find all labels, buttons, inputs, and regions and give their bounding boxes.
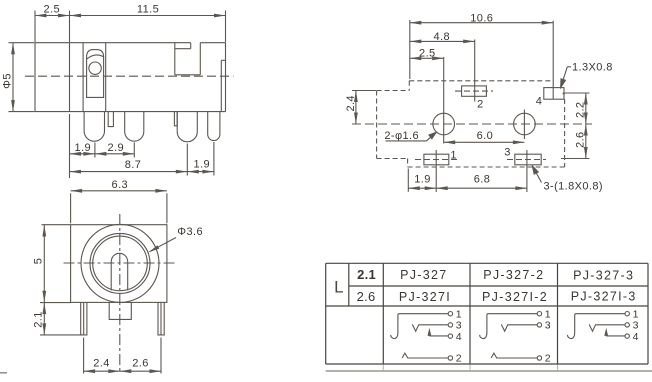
- svg-text:2.1: 2.1: [357, 267, 376, 282]
- svg-text:6.3: 6.3: [112, 179, 129, 191]
- svg-text:1.3X0.8: 1.3X0.8: [572, 61, 613, 73]
- svg-text:PJ-327-2: PJ-327-2: [483, 268, 544, 282]
- svg-text:PJ-327: PJ-327: [400, 268, 447, 282]
- svg-text:5: 5: [33, 258, 45, 265]
- svg-text:L: L: [334, 278, 343, 297]
- svg-text:PJ-327I-3: PJ-327I-3: [571, 289, 637, 303]
- svg-text:2.6: 2.6: [132, 358, 149, 370]
- svg-text:2-φ1.6: 2-φ1.6: [384, 130, 419, 142]
- svg-text:3-(1.8X0.8): 3-(1.8X0.8): [544, 181, 603, 193]
- svg-text:10.6: 10.6: [470, 12, 493, 24]
- svg-text:4.8: 4.8: [434, 31, 451, 43]
- svg-text:PJ-327-3: PJ-327-3: [573, 268, 634, 282]
- svg-text:3: 3: [456, 320, 462, 332]
- svg-text:4: 4: [633, 331, 639, 343]
- svg-text:6.8: 6.8: [474, 174, 491, 186]
- svg-text:2: 2: [456, 353, 462, 365]
- svg-text:4: 4: [456, 331, 462, 343]
- svg-text:1: 1: [450, 149, 457, 161]
- svg-text:11.5: 11.5: [137, 4, 159, 16]
- svg-text:3: 3: [504, 147, 511, 159]
- svg-text:2: 2: [477, 98, 484, 110]
- svg-text:2.6: 2.6: [357, 289, 376, 304]
- svg-text:4: 4: [536, 96, 543, 108]
- svg-text:2.5: 2.5: [419, 48, 436, 60]
- svg-text:PJ-327I: PJ-327I: [399, 290, 451, 304]
- svg-text:2.4: 2.4: [93, 358, 110, 370]
- svg-text:1.9: 1.9: [75, 142, 92, 154]
- svg-text:2.1: 2.1: [33, 311, 45, 328]
- svg-text:3: 3: [633, 320, 639, 332]
- svg-text:2: 2: [545, 353, 551, 365]
- svg-text:PJ-327I-2: PJ-327I-2: [482, 290, 548, 304]
- svg-text:6.0: 6.0: [477, 130, 494, 142]
- svg-text:2.9: 2.9: [108, 142, 125, 154]
- svg-text:1.9: 1.9: [194, 159, 211, 171]
- svg-text:2.6: 2.6: [575, 131, 587, 148]
- svg-text:2.4: 2.4: [345, 95, 357, 112]
- svg-text:2.5: 2.5: [44, 4, 61, 16]
- svg-text:3: 3: [545, 320, 551, 332]
- svg-text:Φ3.6: Φ3.6: [177, 226, 203, 238]
- svg-text:1.9: 1.9: [414, 174, 431, 186]
- svg-text:2.2: 2.2: [575, 102, 587, 119]
- svg-text:Φ5: Φ5: [2, 73, 14, 89]
- svg-text:8.7: 8.7: [125, 159, 142, 171]
